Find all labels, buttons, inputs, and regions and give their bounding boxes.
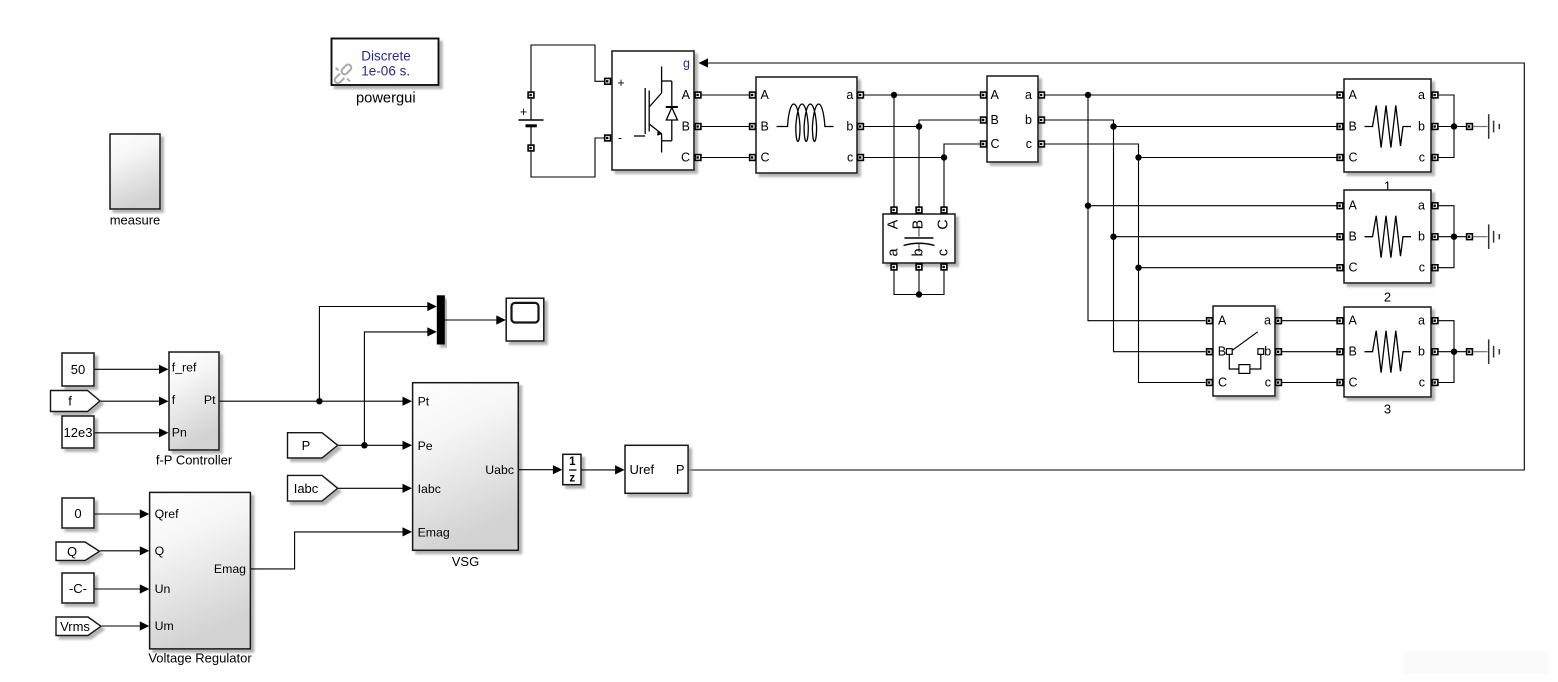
svg-text:b: b bbox=[911, 248, 927, 256]
svg-text:Emag: Emag bbox=[418, 525, 450, 539]
svg-text:b: b bbox=[1418, 345, 1425, 359]
svg-text:f-P Controller: f-P Controller bbox=[156, 453, 233, 468]
from tag f bbox=[51, 391, 101, 412]
Uref P block bbox=[625, 445, 688, 493]
svg-text:P: P bbox=[676, 462, 685, 477]
svg-text:B: B bbox=[682, 120, 690, 134]
wire -C- to Un bbox=[95, 584, 150, 593]
svg-text:12e3: 12e3 bbox=[64, 425, 93, 440]
wire battery- to bridge- bbox=[531, 138, 604, 177]
svg-text:a: a bbox=[846, 88, 853, 102]
svg-text:Uabc: Uabc bbox=[485, 463, 514, 477]
svg-text:c: c bbox=[936, 249, 952, 256]
svg-text:1e-06 s.: 1e-06 s. bbox=[361, 64, 410, 79]
wire load1 outputs to ground node bbox=[1439, 95, 1467, 158]
svg-text:A: A bbox=[1349, 88, 1358, 102]
svg-text:C: C bbox=[761, 151, 770, 165]
svg-text:Un: Un bbox=[155, 582, 171, 596]
junction load2 neutral bbox=[1451, 234, 1457, 240]
powergui label bbox=[356, 90, 416, 106]
load block 2 bbox=[1337, 190, 1438, 283]
VSG label bbox=[452, 554, 479, 569]
junction Pt branch bbox=[316, 398, 322, 404]
svg-text:+: + bbox=[617, 76, 624, 90]
wire bridge C to L1 C bbox=[701, 157, 749, 159]
svg-text:Um: Um bbox=[155, 619, 174, 633]
wire bus a down to breaker A bbox=[1088, 95, 1206, 321]
wire tap a to capacitor A bbox=[893, 95, 895, 207]
from tag Q bbox=[56, 542, 100, 561]
load block 1 bbox=[1337, 79, 1438, 172]
junction bus c bbox=[1135, 154, 1141, 160]
svg-text:b: b bbox=[1418, 230, 1425, 244]
svg-text:Discrete: Discrete bbox=[361, 48, 411, 63]
wire f to f bbox=[101, 397, 169, 406]
f-P Controller subsystem bbox=[169, 352, 219, 450]
svg-text:A: A bbox=[1218, 314, 1227, 328]
svg-text:VSG: VSG bbox=[452, 554, 479, 569]
wire 12e3 to Pn bbox=[95, 428, 169, 437]
wire meas a to load1 A bbox=[1045, 94, 1337, 96]
wire bridge A to L1 A bbox=[701, 94, 749, 96]
powergui block bbox=[332, 39, 439, 86]
svg-text:c: c bbox=[1265, 376, 1271, 390]
junction node a bbox=[891, 92, 897, 98]
junction node b bbox=[916, 123, 922, 129]
ground G3 bbox=[1467, 339, 1500, 364]
svg-text:b: b bbox=[1418, 120, 1425, 134]
wire tap c to capacitor C bbox=[943, 158, 945, 207]
wire Emag to VSG Emag bbox=[251, 527, 412, 569]
mux bbox=[437, 296, 444, 344]
inverter bridge U1 bbox=[605, 51, 701, 170]
wire bridge B to L1 B bbox=[701, 126, 749, 128]
wire L1 c to meas C bbox=[864, 144, 980, 158]
junction bus c load2 bbox=[1135, 265, 1141, 271]
wire 50 to f_ref bbox=[95, 365, 169, 374]
svg-text:Pt: Pt bbox=[204, 393, 216, 407]
constant 50 bbox=[62, 353, 94, 386]
wire branch to load2 B bbox=[1114, 236, 1337, 238]
svg-text:f: f bbox=[68, 394, 72, 409]
svg-text:A: A bbox=[991, 88, 1000, 102]
wire 0 to Qref bbox=[95, 509, 150, 518]
ground G2 bbox=[1467, 224, 1500, 249]
load 2 label bbox=[1384, 290, 1391, 305]
svg-text:c: c bbox=[1026, 137, 1032, 151]
svg-text:C: C bbox=[1349, 376, 1358, 390]
svg-text:3: 3 bbox=[1384, 402, 1391, 417]
wire bus c down to breaker C bbox=[1139, 158, 1206, 383]
wire Vrms to Um bbox=[102, 621, 150, 630]
svg-text:Pn: Pn bbox=[172, 425, 187, 439]
g input arrowhead bbox=[699, 58, 709, 67]
svg-text:a: a bbox=[886, 248, 902, 256]
svg-text:A: A bbox=[682, 88, 691, 102]
svg-text:f_ref: f_ref bbox=[172, 361, 197, 375]
wire branch to load2 C bbox=[1139, 267, 1337, 269]
svg-text:measure: measure bbox=[110, 213, 161, 228]
load block 3 bbox=[1337, 307, 1438, 397]
junction bus a load2 bbox=[1085, 203, 1091, 209]
from tag Iabc bbox=[288, 475, 338, 501]
svg-text:C: C bbox=[681, 151, 690, 165]
svg-text:a: a bbox=[1025, 88, 1032, 102]
junction bus a bbox=[1085, 92, 1091, 98]
wire Pe branch to mux bbox=[364, 327, 436, 445]
measure label bbox=[110, 213, 161, 228]
junction load1 neutral bbox=[1451, 123, 1457, 129]
junction bus b bbox=[1110, 123, 1116, 129]
svg-text:b: b bbox=[846, 120, 853, 134]
wire L1 a to meas A bbox=[864, 94, 980, 96]
wire Pt to VSG Pt bbox=[220, 397, 412, 406]
svg-text:z: z bbox=[569, 473, 575, 485]
svg-text:g: g bbox=[683, 56, 690, 70]
wire Uabc to unit delay bbox=[519, 465, 563, 474]
wire meas c to load1 C bbox=[1045, 144, 1337, 158]
svg-text:b: b bbox=[1264, 345, 1271, 359]
three-phase inductor block L1 bbox=[750, 77, 864, 173]
svg-text:Iabc: Iabc bbox=[418, 482, 441, 496]
svg-text:a: a bbox=[1264, 314, 1271, 328]
wire branch to load2 A bbox=[1088, 205, 1337, 207]
svg-text:A: A bbox=[1349, 314, 1358, 328]
from tag P bbox=[288, 433, 338, 458]
svg-text:c: c bbox=[1419, 151, 1425, 165]
wire breaker b to load3 B bbox=[1282, 351, 1337, 353]
wire breaker a to load3 A bbox=[1282, 320, 1337, 322]
wire L1 b to meas B bbox=[864, 120, 980, 127]
junction node c bbox=[941, 154, 947, 160]
wire Q to Q bbox=[100, 546, 149, 555]
wire mux to scope bbox=[444, 315, 505, 324]
svg-text:a: a bbox=[1418, 314, 1425, 328]
VSG subsystem bbox=[413, 383, 519, 551]
wire Pt branch to mux bbox=[319, 302, 436, 401]
wire load3 outputs to ground node bbox=[1439, 321, 1467, 383]
svg-text:a: a bbox=[1418, 88, 1425, 102]
svg-text:-: - bbox=[618, 131, 622, 145]
wire meas b to load1 B bbox=[1045, 120, 1337, 127]
svg-text:B: B bbox=[1218, 345, 1226, 359]
svg-text:c: c bbox=[1419, 261, 1425, 275]
svg-text:c: c bbox=[1419, 376, 1425, 390]
svg-text:B: B bbox=[761, 120, 769, 134]
junction Pe branch bbox=[361, 442, 367, 448]
DC voltage source Vdc bbox=[519, 92, 544, 151]
svg-text:Pe: Pe bbox=[418, 439, 433, 453]
scope bbox=[506, 298, 544, 341]
svg-text:B: B bbox=[1349, 120, 1357, 134]
svg-text:C: C bbox=[991, 137, 1000, 151]
svg-text:b: b bbox=[1025, 113, 1032, 127]
constant -C- bbox=[62, 573, 94, 603]
svg-text:Voltage Regulator: Voltage Regulator bbox=[148, 651, 252, 666]
svg-text:A: A bbox=[1349, 199, 1358, 213]
svg-text:C: C bbox=[1218, 376, 1227, 390]
svg-text:Uref: Uref bbox=[630, 462, 655, 477]
svg-text:P: P bbox=[302, 438, 311, 453]
wire load2 outputs to ground node bbox=[1439, 206, 1467, 268]
svg-text:Q: Q bbox=[155, 544, 165, 558]
Voltage Regulator label bbox=[148, 651, 252, 666]
wire bus b down to breaker B bbox=[1114, 127, 1206, 352]
three-phase capacitor bank C1 bbox=[883, 207, 955, 270]
Voltage Regulator subsystem bbox=[150, 492, 251, 649]
wire P to VSG Pe bbox=[338, 441, 412, 450]
ground G1 bbox=[1467, 114, 1500, 139]
svg-text:A: A bbox=[886, 219, 902, 229]
measure block bbox=[110, 134, 160, 209]
wire unit delay to Uref bbox=[582, 465, 625, 474]
unit delay 1/z bbox=[563, 454, 581, 484]
svg-text:0: 0 bbox=[74, 506, 81, 521]
svg-text:C: C bbox=[936, 219, 952, 229]
svg-text:C: C bbox=[1349, 261, 1358, 275]
watermark bbox=[1403, 651, 1549, 674]
svg-text:1: 1 bbox=[569, 456, 576, 468]
svg-text:Iabc: Iabc bbox=[294, 481, 319, 496]
svg-text:Q: Q bbox=[67, 544, 77, 559]
junction capacitor neutral bbox=[916, 291, 922, 297]
svg-text:f: f bbox=[172, 393, 176, 407]
wire Iabc to VSG Iabc bbox=[338, 484, 412, 493]
svg-text:-C-: -C- bbox=[69, 581, 87, 596]
load 1 label bbox=[1384, 179, 1391, 194]
svg-text:+: + bbox=[520, 105, 527, 119]
wire tap b to capacitor B bbox=[918, 127, 920, 207]
svg-text:a: a bbox=[1418, 199, 1425, 213]
wire capacitor star point bbox=[894, 270, 944, 295]
f-P Controller label bbox=[156, 453, 233, 468]
svg-text:2: 2 bbox=[1384, 290, 1391, 305]
three-phase measurement block B1 bbox=[981, 76, 1045, 162]
svg-text:Pt: Pt bbox=[418, 395, 430, 409]
svg-text:50: 50 bbox=[71, 362, 85, 377]
wire breaker c to load3 C bbox=[1282, 382, 1337, 384]
junction load3 neutral bbox=[1451, 349, 1457, 355]
from tag Vrms bbox=[56, 617, 101, 636]
svg-text:B: B bbox=[1349, 345, 1357, 359]
wire P feedback to gate g bbox=[689, 63, 1525, 470]
wire battery+ to bridge+ bbox=[531, 45, 604, 92]
junction bus b load2 bbox=[1110, 234, 1116, 240]
svg-text:Emag: Emag bbox=[214, 562, 246, 576]
svg-text:B: B bbox=[991, 113, 999, 127]
constant 0 bbox=[62, 498, 94, 528]
svg-text:c: c bbox=[847, 151, 853, 165]
three-phase breaker bbox=[1207, 306, 1282, 396]
svg-text:C: C bbox=[1349, 151, 1358, 165]
load 3 label bbox=[1384, 402, 1391, 417]
svg-text:B: B bbox=[911, 220, 927, 230]
svg-text:Qref: Qref bbox=[155, 507, 179, 521]
svg-text:powergui: powergui bbox=[356, 90, 416, 106]
constant 12e3 bbox=[62, 416, 94, 448]
svg-text:A: A bbox=[761, 88, 770, 102]
svg-text:B: B bbox=[1349, 230, 1357, 244]
svg-text:Vrms: Vrms bbox=[60, 619, 90, 634]
